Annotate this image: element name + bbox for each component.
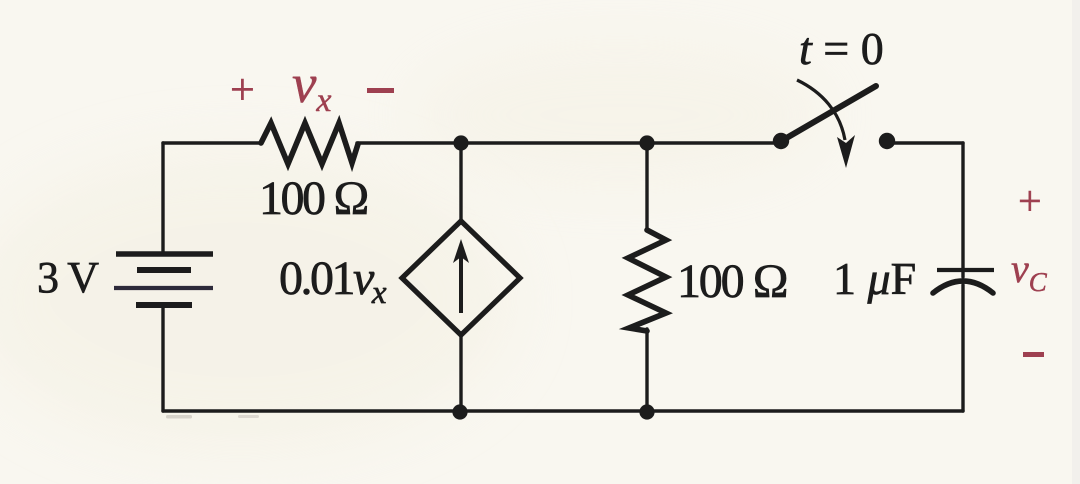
switch arrowhead (down)	[837, 135, 855, 168]
wire R1 to node A	[357, 141, 461, 144]
dependent source arrowhead	[453, 239, 469, 263]
wire R2 bottom to bottom wire	[645, 329, 648, 411]
svg-text:3 V: 3 V	[37, 253, 99, 302]
dependent current source diamond 0.01vx	[402, 221, 520, 335]
battery V1 plate 3 (long)	[114, 286, 213, 290]
scan smudge below bottom wire (middle)	[238, 415, 259, 418]
junction node B dot (top, R2)	[639, 135, 654, 150]
wire left vertical bottom (battery to bottom)	[161, 306, 164, 411]
wire switch right contact to top-right corner	[890, 141, 963, 144]
svg-text:t = 0: t = 0	[799, 23, 884, 74]
capacitor C1 bottom plate (curved)	[933, 281, 993, 293]
polarity - for vC	[1023, 352, 1044, 357]
junction dot bottom (dep source)	[452, 404, 467, 419]
scan smudge below bottom wire (left)	[166, 415, 192, 419]
wire top-left horizontal (node to R1)	[163, 141, 261, 144]
wire left vertical top (to battery)	[161, 143, 164, 254]
dependent source arrow shaft	[459, 254, 463, 313]
svg-text:100 Ω: 100 Ω	[259, 172, 367, 225]
svg-text:+: +	[230, 65, 255, 114]
wire node B down to R2 top	[645, 143, 648, 229]
polarity - for vx	[367, 88, 394, 93]
switch blade	[783, 86, 876, 140]
switch right contact dot	[879, 133, 895, 149]
wire node A down to dependent source top	[459, 143, 462, 223]
junction node A dot (top, dep source)	[453, 135, 468, 150]
switch actuation arc arrow	[797, 80, 845, 140]
battery V1 plate 1 (long, top)	[116, 251, 213, 257]
svg-text:0.01vx: 0.01vx	[279, 252, 387, 311]
svg-text:+: +	[1018, 179, 1042, 225]
svg-text:100 Ω: 100 Ω	[677, 255, 787, 308]
wire node B to switch left contact	[647, 141, 778, 144]
switch left contact dot	[773, 133, 789, 149]
junction dot bottom (R2)	[639, 404, 654, 419]
svg-text:1 μF: 1 μF	[833, 253, 916, 304]
battery V1 plate 4 (short, bottom)	[136, 302, 192, 308]
wire dependent source bottom to bottom wire	[459, 333, 462, 411]
capacitor C1 top plate	[937, 268, 994, 272]
resistor R2 100 ohm (vertical)	[628, 230, 666, 331]
wire capacitor to bottom-right corner	[961, 285, 964, 411]
resistor R1 100 ohm (top)	[261, 123, 358, 164]
wire right vertical (switch to capacitor)	[961, 143, 964, 277]
battery V1 plate 2 (short)	[137, 267, 191, 273]
wire node A to node B	[461, 141, 647, 144]
wire bottom horizontal	[163, 409, 963, 412]
